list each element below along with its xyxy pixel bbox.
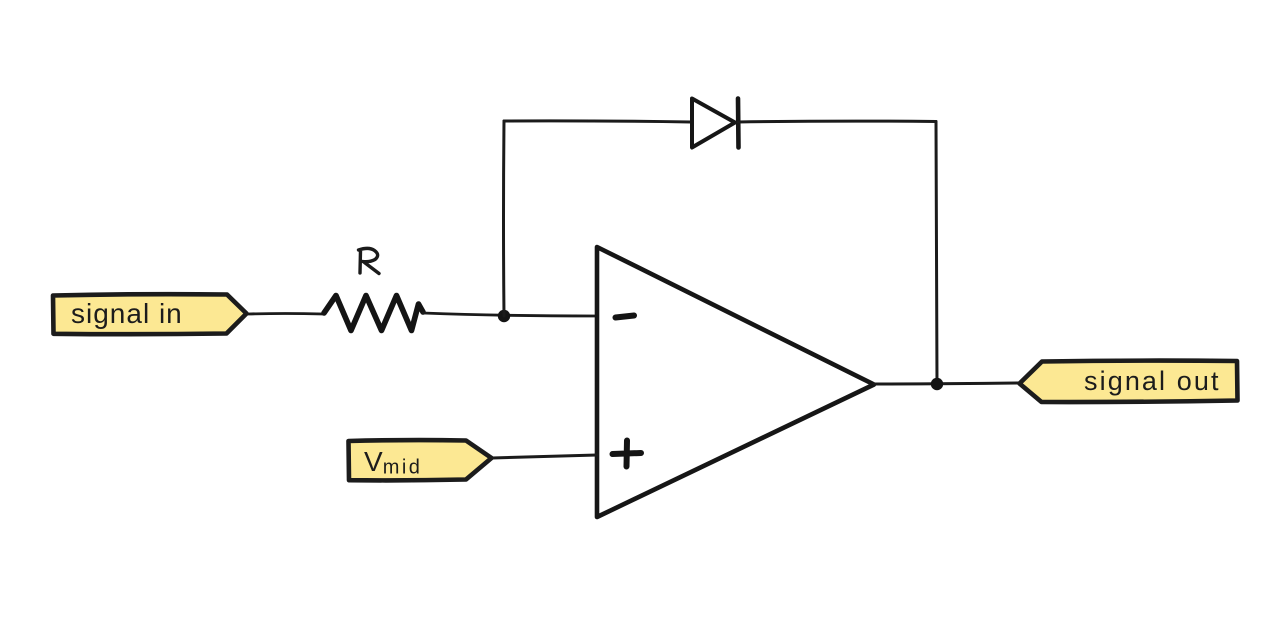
wire: Vmid to non-inverting input (492, 455, 597, 458)
wire: feedback top right horizontal (738, 120, 936, 124)
diode D1 (692, 99, 739, 148)
resistor R1 zigzag (324, 296, 423, 331)
wire: op-amp output (874, 383, 1019, 384)
wire: signal in to resistor (248, 312, 323, 315)
wire: resistor to op-amp inverting input (423, 313, 597, 316)
op-amp inverting input minus (616, 316, 635, 318)
wire: feedback right vertical down to output (936, 122, 937, 385)
svg-text:signal in: signal in (71, 298, 183, 329)
svg-text:signal out: signal out (1084, 366, 1221, 396)
junction node at output (931, 378, 943, 390)
wire: feedback left vertical (502, 121, 506, 316)
node tag: signal in (53, 294, 247, 334)
op-amp non-inverting input plus (613, 441, 642, 467)
op-amp U1 triangle (597, 247, 874, 517)
node tag: signal out (1020, 361, 1238, 402)
wire: feedback top left horizontal (504, 121, 691, 122)
value label R (hand-drawn) (359, 248, 380, 273)
node tag: Vmid (349, 440, 492, 480)
junction node at inverting input (498, 310, 510, 322)
